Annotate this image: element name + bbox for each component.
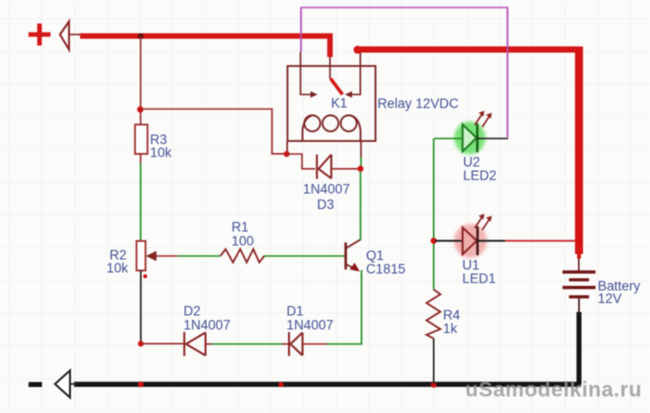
node junction dot D3 right [358, 166, 364, 172]
node dot on ground bus mid [278, 382, 283, 387]
wire: bus down to R3 [140, 37, 142, 124]
wire: battery bottom stub [578, 298, 580, 313]
label Q1 C1815 [366, 248, 405, 277]
transistor Q1 [346, 240, 361, 271]
node junction dot LED1 left [431, 238, 437, 244]
svg-text:LED2: LED2 [463, 168, 497, 183]
node dot on ground bus at R2 [138, 381, 144, 387]
LED U2 symbol [463, 124, 478, 153]
label U1 LED1 [462, 258, 496, 286]
wire: R2 wiper to R1 [156, 255, 221, 257]
resistor R4 zigzag [427, 290, 441, 339]
label D2 1N4007 [184, 304, 231, 333]
wire: LED1 anode black [435, 240, 463, 242]
LED U2 glow [454, 121, 485, 154]
LED1 emission arrows [475, 217, 490, 230]
wire: LED2 anode [434, 138, 463, 140]
resistor R3 [135, 125, 148, 154]
LED U1 symbol [463, 227, 478, 256]
wire: LED2 cathode black [477, 138, 508, 140]
diode D3 [317, 155, 331, 180]
svg-text:1N4007: 1N4007 [303, 181, 350, 196]
node: bus tap dot for R3 [138, 34, 143, 39]
potentiometer R2 [137, 241, 157, 271]
svg-text:LED1: LED1 [462, 271, 496, 286]
svg-text:K1: K1 [331, 96, 347, 111]
wire: D2 to D1 [206, 343, 289, 345]
wire: R1 to Q1 base [264, 255, 344, 257]
LED2 emission arrows [475, 114, 490, 127]
svg-text:1N4007: 1N4007 [184, 318, 231, 333]
wire: coil right lead down [360, 141, 362, 169]
svg-text:12V: 12V [598, 291, 622, 306]
relay NO contact and arrow [349, 53, 360, 95]
svg-text:100: 100 [232, 233, 254, 248]
negative terminal arrow [55, 371, 77, 398]
wire: magenta net relay NC to LED2 [301, 7, 508, 138]
wire: junction down to D3 [287, 154, 315, 169]
label K1 [331, 96, 347, 111]
svg-text:D1: D1 [287, 304, 304, 319]
diode D1 [289, 332, 303, 356]
node junction dot coil left [284, 151, 290, 157]
node junction dot D2 left [138, 341, 144, 347]
node dot on battery bus [576, 238, 582, 244]
label R3 10k [150, 132, 172, 160]
svg-text:1N4007: 1N4007 [287, 318, 334, 333]
svg-text:D3: D3 [317, 197, 334, 212]
wire: D3 anode to junction [331, 168, 358, 170]
node: R2 wiper pin dot [143, 274, 147, 278]
label D1 1N4007 [287, 304, 334, 333]
wire: coil left lead to junction [286, 141, 288, 154]
svg-text:uSamodelkina.ru: uSamodelkina.ru [465, 379, 642, 402]
svg-text:10k: 10k [150, 145, 172, 160]
wire: Q1 collector up to D3 junction [360, 169, 362, 240]
relay K1 box [288, 66, 376, 141]
wire: +12V thick bus [80, 36, 330, 57]
wire: junction to R4 top [433, 241, 435, 290]
negative terminal minus symbol [29, 382, 43, 387]
svg-text:C1815: C1815 [366, 262, 405, 277]
label R2 10k [107, 248, 129, 276]
relay common lead [329, 57, 331, 79]
wire: R2 bottom down [140, 271, 142, 344]
battery BT1 plates [563, 272, 596, 297]
wire: junction to D2 [141, 343, 184, 345]
label 1N4007 D3 [303, 181, 350, 212]
relay coil [303, 115, 361, 141]
label U2 LED2 [463, 155, 497, 184]
svg-text:10k: 10k [107, 260, 129, 275]
wire: R3 junction to relay coil [141, 109, 285, 154]
wire: stub to battery top [578, 258, 580, 272]
label Battery 12V [598, 279, 641, 306]
LED U1 glow [454, 224, 487, 258]
positive terminal plus symbol [29, 24, 51, 46]
wire: R4 bottom to ground bus [433, 339, 435, 385]
label R4 1k [443, 308, 461, 336]
resistor R1 zigzag [221, 249, 265, 262]
label R1 100 [232, 220, 254, 249]
svg-text:Relay 12VDC: Relay 12VDC [378, 96, 459, 111]
wire: R3 to R2 [140, 154, 142, 241]
node dot on ground bus at R4 [431, 382, 437, 388]
diode D2 [184, 332, 205, 356]
positive terminal arrow [60, 22, 82, 50]
wire: battery negative thick black [577, 312, 582, 384]
label Relay 12VDC [378, 96, 459, 111]
wire: D1 to Q1 emitter [303, 270, 362, 344]
wire: LED1 cathode to battery bus [478, 240, 578, 242]
wire: ground thick black bus [74, 382, 581, 387]
relay NC contact and arrow [301, 52, 314, 95]
svg-text:1k: 1k [443, 321, 457, 336]
wire: LED2 anode green down to LED1 junction [433, 139, 435, 241]
relay switch lever [331, 79, 343, 95]
svg-text:D2: D2 [184, 304, 201, 319]
node junction dot R3 top [137, 106, 143, 112]
wire: battery thick bus to relay NO [357, 46, 579, 52]
